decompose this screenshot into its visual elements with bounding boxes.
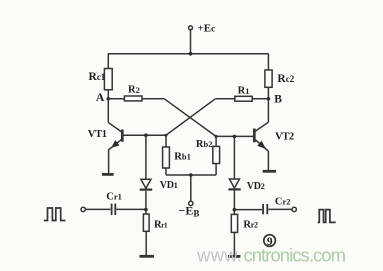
wire junction to Rr1 — [145, 210, 147, 214]
wire diagonal R1 to VT1 base — [166, 99, 215, 135]
wire base junction down to Rb1 — [165, 135, 167, 147]
resistor Rc1 — [104, 69, 112, 90]
wire junction to Cr2 — [234, 209, 262, 211]
ground (VT1 emitter) — [102, 173, 114, 176]
wire Rb2 top to base junction — [215, 136, 217, 146]
node trigger junction 2 — [233, 208, 237, 212]
terminal -EB — [189, 201, 193, 205]
wire Cr1 to junction — [116, 208, 145, 210]
svg-text:Rr1: Rr1 — [154, 220, 168, 231]
wire VT2 base line — [216, 135, 253, 137]
node trigger junction 1 — [144, 208, 148, 212]
wire diagonal R2 to VT2 base — [164, 99, 216, 137]
wire VD2 from base — [233, 136, 235, 179]
wire VT1 base line — [124, 134, 167, 136]
wire R1 left — [215, 98, 235, 100]
wire EB drop — [190, 175, 192, 201]
wire bottom connector Rb1-Rb2 — [166, 174, 216, 176]
node EB junction — [189, 173, 193, 177]
wire Ec drop — [190, 30, 192, 54]
pulse waveform left — [44, 208, 66, 221]
resistor R1 — [235, 96, 252, 101]
terminal trigger input 2 — [292, 207, 296, 211]
svg-text:VD1: VD1 — [160, 180, 178, 191]
svg-text:R1: R1 — [238, 85, 250, 96]
svg-text:www.: www. — [196, 244, 242, 265]
wire top rail — [108, 53, 269, 55]
svg-text:B: B — [274, 94, 282, 106]
wire input to Cr1 — [85, 208, 110, 210]
svg-text:Rb2: Rb2 — [196, 139, 213, 150]
capacitor Cr2 — [263, 204, 267, 214]
node VD2 junction on base — [233, 135, 237, 139]
svg-text:−EB: −EB — [179, 204, 200, 219]
wire rail to Rc1 — [107, 54, 109, 69]
resistor Rr2 — [231, 214, 237, 232]
figure number 9 circled — [264, 235, 276, 248]
wire VD1 to trigger junction — [145, 191, 147, 210]
svg-text:R2: R2 — [128, 85, 140, 96]
wire R1 to B — [252, 98, 268, 100]
svg-text:cntronics.com: cntronics.com — [244, 244, 347, 265]
node Rb1/R1 junction — [165, 134, 168, 137]
svg-text:Cr2: Cr2 — [275, 196, 291, 207]
wire junction to Rr2 — [233, 210, 235, 215]
wire VD2 to trigger junction — [233, 191, 235, 210]
wire Cr2 to terminal — [268, 208, 292, 210]
node B — [267, 97, 271, 101]
ground (Rr1) — [140, 255, 155, 258]
wire Rc2 to node B — [267, 87, 269, 99]
svg-text:VT2: VT2 — [275, 132, 294, 143]
ground (VT2 emitter) — [263, 170, 276, 173]
wire A to R2 — [108, 98, 124, 100]
resistor R2 — [124, 96, 142, 101]
wire Rc1 to node A — [107, 90, 109, 99]
pulse waveform right — [318, 210, 336, 223]
svg-text:Cr1: Cr1 — [106, 191, 122, 202]
wire rail to Rc2 — [267, 54, 269, 70]
node rail junction — [189, 52, 193, 56]
resistor Rr1 — [143, 214, 149, 231]
wire Rr1 to ground — [145, 231, 147, 256]
node VD1 junction on base — [144, 133, 148, 137]
svg-text:Rc1: Rc1 — [89, 71, 106, 83]
resistor Rb1 — [163, 147, 170, 168]
wire node A down to VT1 collector — [107, 99, 109, 123]
resistor Rc2 — [265, 70, 272, 87]
wire Rb1 bottom — [165, 168, 167, 175]
terminal trigger input 1 — [81, 207, 85, 211]
svg-text:+Ec: +Ec — [198, 22, 216, 34]
ground (Rr2) — [228, 255, 240, 258]
diode VD2 — [228, 179, 240, 189]
wire node B down to VT2 collector — [267, 99, 269, 122]
node A — [107, 97, 111, 101]
wire Rb2 bottom — [215, 164, 217, 176]
svg-text:VD2: VD2 — [247, 181, 265, 192]
svg-text:Rr2: Rr2 — [243, 220, 258, 231]
svg-text:Rb1: Rb1 — [174, 152, 191, 163]
terminal +Ec — [189, 26, 193, 30]
svg-text:A: A — [96, 90, 105, 104]
diode VD1 — [140, 179, 153, 189]
wire R2 right — [142, 98, 164, 100]
svg-text:VT1: VT1 — [88, 129, 107, 140]
node Rb2 junction — [215, 135, 218, 138]
transistor VT2 — [254, 122, 268, 170]
resistor Rb2 — [213, 146, 220, 163]
wire Rr2 to ground — [233, 232, 235, 256]
svg-text:Rc2: Rc2 — [277, 73, 294, 85]
capacitor Cr1 — [112, 204, 116, 215]
transistor VT1 — [108, 123, 122, 174]
wire VD1 from base — [145, 135, 147, 179]
